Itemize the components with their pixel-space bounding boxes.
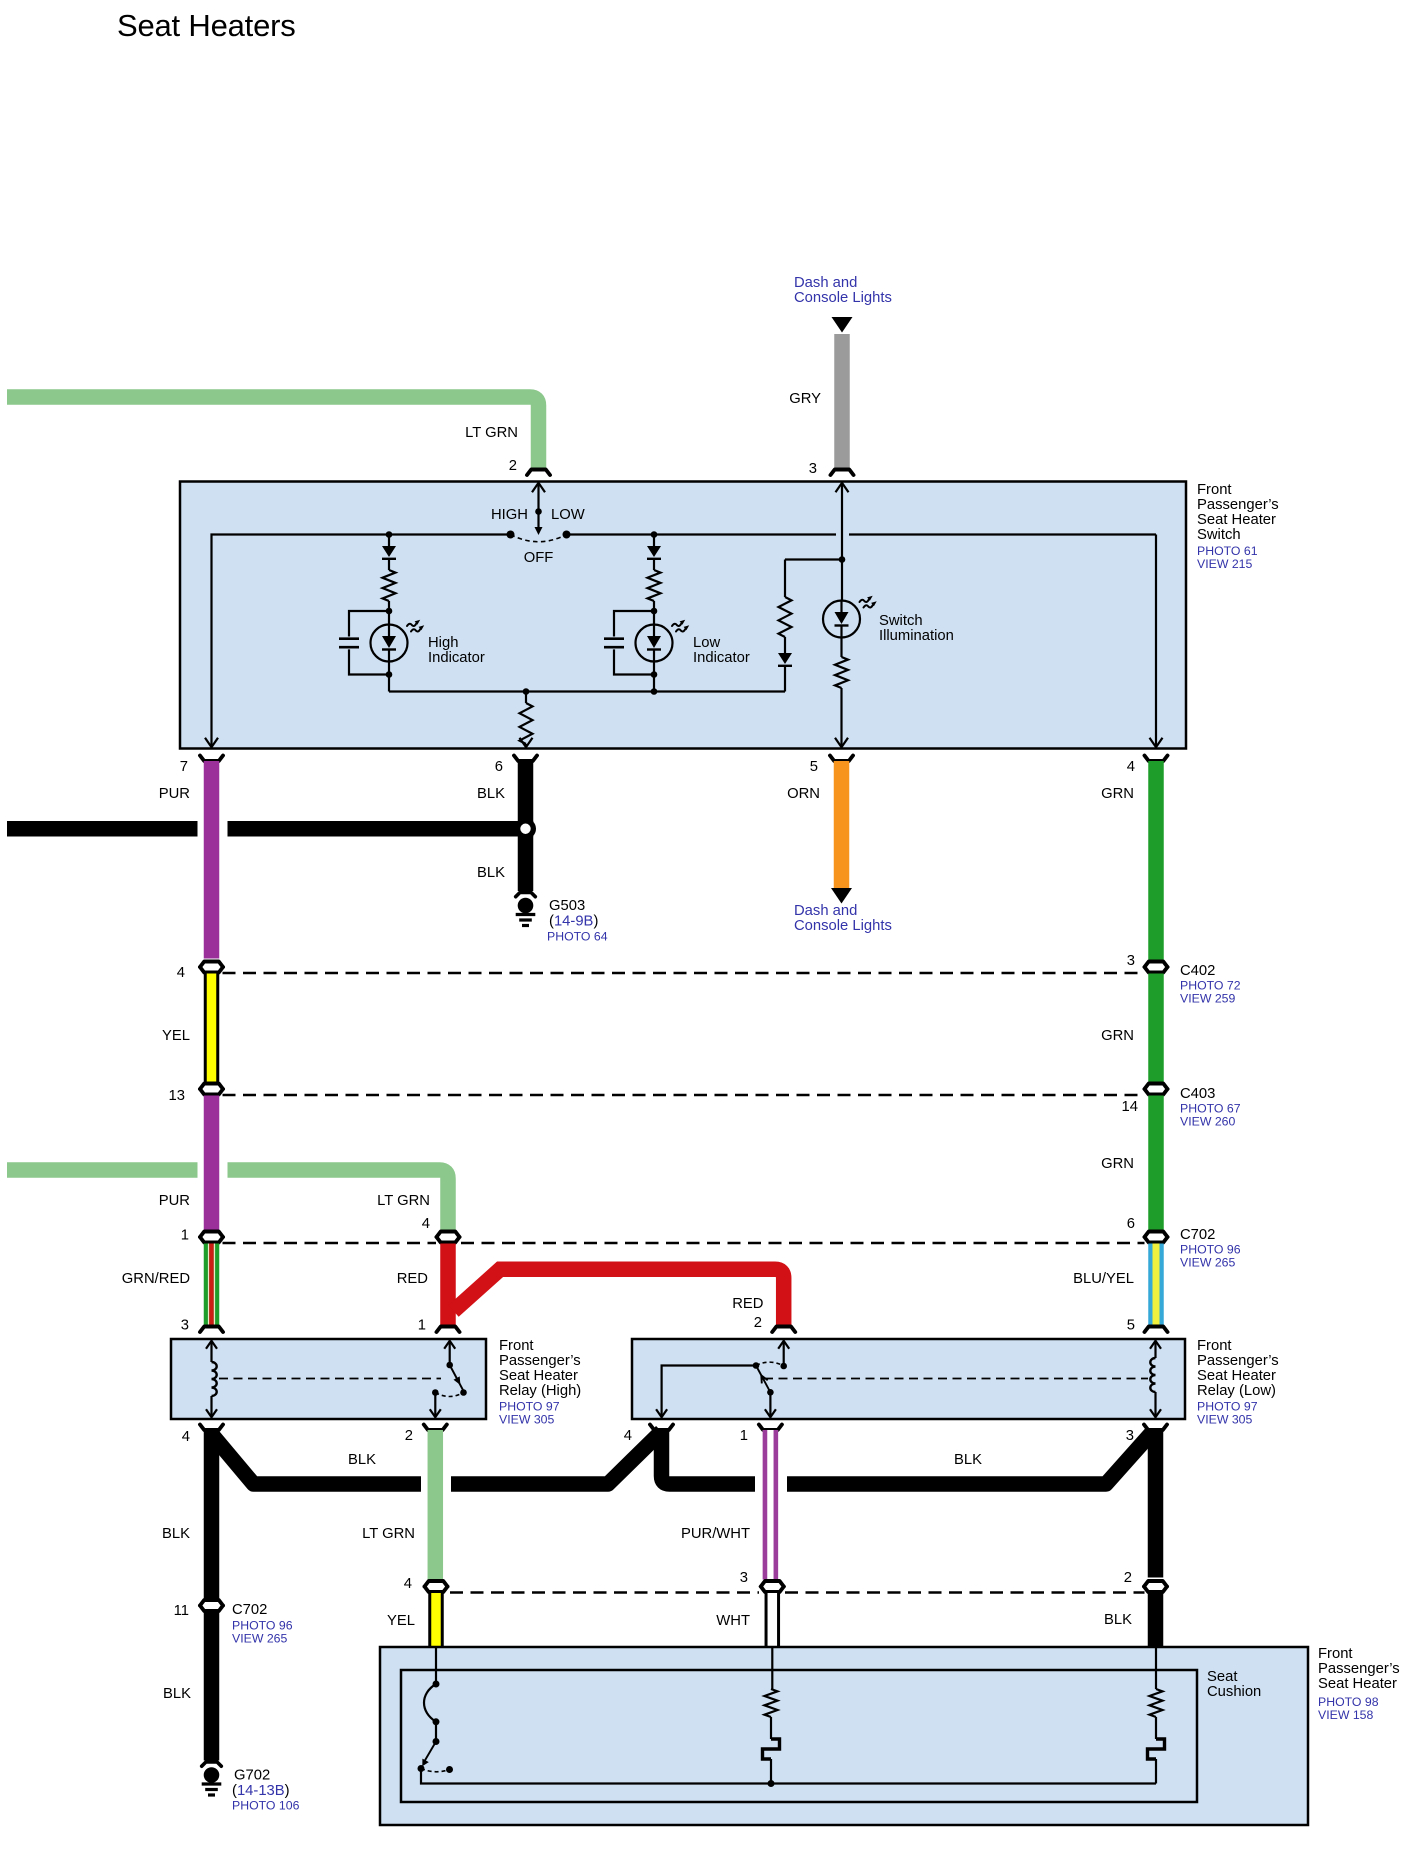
svg-text:2: 2 (509, 458, 517, 474)
pin 3 connector cap (831, 470, 854, 476)
node relay low pin1 contact (767, 1389, 774, 1396)
svg-text:Passenger’s: Passenger’s (1197, 1353, 1279, 1369)
node bus-R6 junction (523, 688, 530, 695)
svg-text:C402: C402 (1180, 963, 1215, 979)
node high top (386, 608, 393, 615)
svg-text:VIEW 158: VIEW 158 (1318, 1708, 1374, 1722)
svg-text:Seat Heater: Seat Heater (1318, 1676, 1397, 1692)
node high branch junction (386, 531, 393, 538)
label GRN lower (1101, 1156, 1134, 1172)
wire low to bus (653, 675, 655, 692)
svg-text:Dash and: Dash and (794, 903, 857, 919)
node thermostat top (433, 1681, 440, 1688)
node switch common (HIGH/LOW dot) (535, 508, 542, 515)
svg-text:PHOTO 96: PHOTO 96 (1180, 1243, 1241, 1257)
wire high to bus (388, 675, 390, 692)
label pin 4 (C702) (422, 1216, 430, 1232)
svg-text:4: 4 (177, 965, 185, 981)
lamp High Indicator (371, 611, 408, 675)
label C702 (1180, 1227, 1241, 1270)
svg-text:PHOTO 61: PHOTO 61 (1197, 544, 1258, 558)
label pin 6 (C702 right) (1127, 1216, 1135, 1232)
svg-text:VIEW 305: VIEW 305 (499, 1413, 555, 1427)
relay high pin 4 cap (200, 1425, 223, 1431)
pin 6 label (495, 759, 503, 775)
diode D-high (382, 535, 396, 571)
svg-text:PHOTO 98: PHOTO 98 (1318, 1695, 1379, 1709)
C402 pin 4 caps (200, 962, 223, 973)
connector C702 dashed line (223, 1242, 1145, 1245)
svg-text:BLK: BLK (348, 1452, 376, 1468)
svg-text:4: 4 (624, 1428, 632, 1444)
svg-text:LT GRN: LT GRN (465, 425, 518, 441)
relay low pin 4 cap (650, 1425, 673, 1431)
pin 4 exit arrow (1150, 738, 1163, 748)
label BLK lower left (163, 1686, 191, 1702)
svg-text:BLK: BLK (477, 865, 505, 881)
relay high label (499, 1338, 581, 1427)
wire LT GRN feed (left to C702 pin 4) (7, 1162, 448, 1229)
label pin 13 (169, 1088, 185, 1104)
node relay low common (753, 1362, 760, 1369)
label pin 1 (C702 left) (181, 1228, 189, 1244)
node bus-low junction (651, 688, 658, 695)
svg-text:High: High (428, 635, 458, 651)
title Seat Heaters (117, 8, 296, 43)
wire BLK ground bus (diagonal from relay high pin 4) (212, 1434, 422, 1484)
connector C702 pin 11 caps (200, 1600, 223, 1611)
svg-text:Front: Front (1318, 1646, 1353, 1662)
C702 pin4 caps (437, 1232, 460, 1243)
wire BLK ground bus right (787, 1433, 1152, 1484)
label pin 2 (relay high bottom) (405, 1428, 413, 1444)
arrow from Dash and Console Lights (832, 317, 853, 333)
wire to pin 4 (right drop) (1155, 535, 1157, 747)
label PUR lower (159, 1193, 190, 1209)
svg-text:5: 5 (1127, 1318, 1135, 1334)
svg-text:Seat: Seat (1207, 1669, 1237, 1685)
node illumination junction (839, 556, 846, 563)
node thermostat mid (433, 1718, 440, 1725)
label Dash and Console Lights (bottom) (794, 903, 892, 934)
svg-text:4: 4 (422, 1216, 430, 1232)
label pin 2 (509, 458, 517, 474)
resistor R-low (648, 570, 661, 601)
seat heater label (1318, 1646, 1400, 1722)
label BLK bus left (348, 1452, 376, 1468)
wire (770, 1717, 772, 1739)
label pin 3 (relay high) (181, 1318, 189, 1334)
pin 3 entry line with arrow (836, 483, 849, 601)
box Seat Cushion (inner) (401, 1670, 1197, 1802)
switch contact dot right (563, 531, 571, 539)
pin 4 connector cap (1145, 756, 1168, 762)
squiggle arrows high (407, 620, 424, 632)
label C403 (1180, 1086, 1241, 1129)
svg-text:BLU/YEL: BLU/YEL (1073, 1271, 1134, 1287)
wire GRN (C403-14 to C702-6) (1148, 1096, 1164, 1230)
wire indicator return bus (389, 690, 785, 692)
svg-text:VIEW 215: VIEW 215 (1197, 557, 1253, 571)
wire illumination resistor branch (785, 560, 842, 598)
label LT GRN (465, 425, 518, 441)
svg-text:Relay (High): Relay (High) (499, 1383, 581, 1399)
svg-text:PUR: PUR (159, 786, 190, 802)
svg-text:GRN: GRN (1101, 786, 1134, 802)
label pin 4 (C402 left) (177, 965, 185, 981)
svg-text:2: 2 (405, 1428, 413, 1444)
resistor R-illum-parallel (779, 597, 792, 637)
LT GRN / YEL caps (425, 1581, 448, 1592)
thermal protector 2 (1148, 1739, 1165, 1759)
svg-text:PHOTO 96: PHOTO 96 (232, 1619, 293, 1633)
node relay low NO (780, 1363, 787, 1370)
label High Indicator (428, 635, 485, 666)
svg-text:5: 5 (810, 759, 818, 775)
svg-text:1: 1 (740, 1428, 748, 1444)
wire (770, 1759, 772, 1784)
relay low pin 2 cap (772, 1327, 795, 1333)
resistor heater element 1 (765, 1689, 778, 1717)
svg-text:BLK: BLK (163, 1686, 191, 1702)
relay low coil (1150, 1341, 1161, 1417)
label WHT (716, 1613, 750, 1629)
svg-text:GRY: GRY (789, 391, 821, 407)
squiggle arrows low (672, 620, 689, 632)
wire BLK trunk (left feed) (7, 821, 533, 837)
relay box Front Passenger's Seat Heater Relay (Low) (632, 1339, 1185, 1419)
svg-text:6: 6 (495, 759, 503, 775)
wire GRY (to switch pin 3) (834, 334, 850, 470)
wire BLK (relay high pin 4 down) (204, 1430, 220, 1598)
switch contact dot left (507, 531, 515, 539)
svg-text:LOW: LOW (551, 507, 585, 523)
node low branch junction (651, 531, 658, 538)
label ORN (787, 786, 820, 802)
label pin 4 (relay high) (182, 1429, 190, 1445)
BLK / BLK caps (1144, 1581, 1167, 1592)
relay low pin 5 cap (1145, 1327, 1168, 1333)
svg-text:Illumination: Illumination (879, 628, 954, 644)
svg-text:Indicator: Indicator (428, 650, 485, 666)
pin 6 exit arrow (520, 738, 533, 748)
svg-text:YEL: YEL (162, 1028, 190, 1044)
capacitor C-high (339, 611, 389, 675)
wire LT GRN (relay high pin 2 down) (428, 1430, 444, 1580)
svg-text:BLK: BLK (954, 1452, 982, 1468)
node thermostat contact left (418, 1765, 425, 1772)
label HIGH (491, 507, 528, 523)
svg-text:C702: C702 (232, 1602, 267, 1618)
svg-text:PHOTO 97: PHOTO 97 (1197, 1400, 1258, 1414)
wire (784, 637, 786, 653)
svg-text:1: 1 (418, 1318, 426, 1334)
wire BLK (pin 11 to G702) (204, 1612, 220, 1761)
svg-text:G503: G503 (549, 898, 585, 914)
svg-text:PHOTO 72: PHOTO 72 (1180, 979, 1241, 993)
svg-text:VIEW 260: VIEW 260 (1180, 1115, 1236, 1129)
label pin 11 (174, 1603, 189, 1619)
relay high pin 2 cap (424, 1425, 447, 1431)
relay low actuation dashed (764, 1378, 1148, 1380)
squiggle arrows illumination (860, 596, 877, 608)
svg-text:GRN/RED: GRN/RED (122, 1271, 190, 1287)
svg-text:Seat Heater: Seat Heater (1197, 512, 1276, 528)
PUR-WHT / WHT caps (761, 1581, 784, 1592)
svg-text:Relay (Low): Relay (Low) (1197, 1383, 1276, 1399)
svg-text:YEL: YEL (387, 1613, 415, 1629)
relay high pin 3 cap (200, 1327, 223, 1333)
relay high moving arm (450, 1365, 464, 1391)
wire BLK (to seat heater) (1148, 1593, 1164, 1647)
svg-text:Seat Heater: Seat Heater (1197, 1368, 1276, 1384)
pin 5 connector cap (830, 756, 853, 762)
label G702 (232, 1768, 300, 1813)
diode D-low (647, 535, 661, 571)
relay high actuation dashed (219, 1378, 441, 1380)
pin 7 label (180, 759, 188, 775)
node element1 junction (768, 1780, 775, 1787)
wire ORN (pin 5 down) (834, 761, 850, 888)
OFF dashed arc (511, 535, 567, 542)
pin 7 exit arrow (205, 738, 218, 748)
svg-text:3: 3 (809, 461, 817, 477)
label pin 4 (seat heater) (404, 1576, 412, 1592)
svg-text:Passenger’s: Passenger’s (1318, 1661, 1400, 1677)
wire cushion bottom bus (421, 1769, 1156, 1784)
lamp Switch Illumination (823, 601, 860, 658)
svg-text:Front: Front (1197, 482, 1232, 498)
relay high contact pin1 line (444, 1341, 455, 1365)
wire internal bus left (pin7 branch) (212, 535, 511, 747)
label Low Indicator (693, 635, 750, 666)
relay high coil (206, 1341, 217, 1417)
pin 4 label (1127, 759, 1135, 775)
wire pin4 into cushion (435, 1647, 437, 1684)
svg-text:VIEW 265: VIEW 265 (232, 1632, 288, 1646)
label YEL 2 (387, 1613, 415, 1629)
svg-text:LT GRN: LT GRN (377, 1193, 430, 1209)
label PUR/WHT (681, 1526, 750, 1542)
label G503 (547, 898, 608, 944)
label Switch Illumination (879, 613, 954, 644)
label PUR (159, 786, 190, 802)
node thermostat contact right (446, 1766, 453, 1773)
relay low label (1197, 1338, 1279, 1427)
svg-text:GRN: GRN (1101, 1028, 1134, 1044)
svg-text:RED: RED (732, 1296, 763, 1312)
C702 pin6 caps (1145, 1232, 1168, 1243)
label GRN/RED (122, 1271, 190, 1287)
ground G702 (202, 1767, 222, 1795)
svg-text:VIEW 259: VIEW 259 (1180, 992, 1236, 1006)
svg-text:C702: C702 (1180, 1227, 1215, 1243)
svg-text:3: 3 (740, 1570, 748, 1586)
label LOW (551, 507, 585, 523)
relay box Front Passenger's Seat Heater Relay (High) (171, 1339, 486, 1419)
svg-text:2: 2 (1124, 1570, 1132, 1586)
relay high pin2 line (430, 1393, 441, 1418)
connector C403 dashed line (223, 1094, 1145, 1097)
label GRY (789, 391, 821, 407)
node low bottom (651, 671, 658, 678)
svg-text:Passenger’s: Passenger’s (499, 1353, 581, 1369)
svg-text:Dash and: Dash and (794, 275, 857, 291)
svg-text:(14-9B): (14-9B) (549, 914, 598, 930)
switch pole arrow (535, 527, 543, 535)
svg-text:Cushion: Cushion (1207, 1684, 1261, 1700)
svg-text:13: 13 (169, 1088, 185, 1104)
wire pin3 into cushion (771, 1647, 773, 1689)
svg-text:WHT: WHT (716, 1613, 750, 1629)
pin 2 entry line with arrow (532, 483, 545, 511)
ground G503 (516, 898, 536, 926)
svg-text:6: 6 (1127, 1216, 1135, 1232)
label pin 5 (relay low) (1127, 1318, 1135, 1334)
relay low pin2 line (778, 1341, 789, 1366)
svg-text:11: 11 (174, 1603, 189, 1619)
label BLK bus right (954, 1452, 982, 1468)
pin 6 connector cap (514, 756, 537, 762)
relay low pin 3 cap (1144, 1425, 1167, 1431)
thermostat flex curve (424, 1684, 436, 1722)
svg-text:4: 4 (404, 1576, 412, 1592)
C402 pin 3 caps (1145, 962, 1168, 973)
svg-text:VIEW 305: VIEW 305 (1197, 1413, 1253, 1427)
wire pin2 into cushion (1155, 1647, 1157, 1689)
svg-text:OFF: OFF (524, 550, 554, 566)
svg-text:3: 3 (181, 1318, 189, 1334)
label RED right (732, 1296, 763, 1312)
svg-text:14: 14 (1122, 1099, 1138, 1115)
switch box Front Passenger's Seat Heater Switch (180, 482, 1186, 749)
svg-text:1: 1 (181, 1228, 189, 1244)
svg-text:Seat Heater: Seat Heater (499, 1368, 578, 1384)
switch pole line (537, 512, 539, 529)
svg-text:LT GRN: LT GRN (362, 1526, 415, 1542)
svg-text:Console Lights: Console Lights (794, 290, 892, 306)
node relay high NO (460, 1389, 467, 1396)
ground G503 cap (516, 893, 536, 897)
wire PUR/WHT (relay low pin 1 down) (763, 1430, 779, 1580)
label pin 3 (seat heater) (740, 1570, 748, 1586)
connector C402 dashed line (223, 972, 1145, 975)
wire BLK (relay low pin 3 down) (1148, 1430, 1164, 1578)
node high bottom (386, 671, 393, 678)
svg-text:Front: Front (1197, 1338, 1232, 1354)
label C702 lower (232, 1602, 293, 1646)
svg-text:PHOTO 106: PHOTO 106 (232, 1799, 300, 1813)
label pin 4 (relay low) (624, 1428, 632, 1444)
wire (435, 1722, 437, 1742)
svg-text:3: 3 (1126, 1428, 1134, 1444)
svg-text:Seat Heaters: Seat Heaters (117, 8, 296, 43)
svg-text:PHOTO 64: PHOTO 64 (547, 930, 608, 944)
node thermostat arm pivot (433, 1738, 440, 1745)
label C402 (1180, 963, 1241, 1006)
svg-text:Switch: Switch (1197, 527, 1241, 543)
svg-text:Front: Front (499, 1338, 534, 1354)
resistor heater element 2 (1150, 1689, 1163, 1717)
label LT GRN 2 (377, 1193, 430, 1209)
svg-text:GRN: GRN (1101, 1156, 1134, 1172)
label OFF (524, 550, 554, 566)
wire BLK ground bus middle (451, 1432, 755, 1485)
label pin 1 (relay high) (418, 1318, 426, 1334)
ground G702 cap (202, 1762, 222, 1766)
C403 pin 14 caps (1145, 1084, 1168, 1095)
svg-text:Passenger’s: Passenger’s (1197, 497, 1279, 513)
wire RED (C702-4 to relays) (448, 1244, 784, 1326)
wire (1155, 1717, 1157, 1739)
svg-text:PUR/WHT: PUR/WHT (681, 1526, 750, 1542)
svg-text:BLK: BLK (477, 786, 505, 802)
svg-text:BLK: BLK (1104, 1612, 1132, 1628)
thermostat moving arm (422, 1742, 436, 1767)
wire WHT (to seat heater) (765, 1593, 781, 1647)
svg-text:3: 3 (1127, 953, 1135, 969)
relay low pin1 line (765, 1392, 776, 1417)
node relay high common (446, 1362, 453, 1369)
capacitor C-low (604, 611, 654, 675)
wire PUR (pin 7 down) (204, 761, 220, 959)
wire BLU/YEL (C702-6 to relay low pin 5) (1148, 1244, 1164, 1326)
svg-text:4: 4 (182, 1429, 190, 1445)
svg-text:Low: Low (693, 635, 720, 651)
relay low contact dashed arc (756, 1362, 784, 1366)
label BLU/YEL (1073, 1271, 1134, 1287)
relay low moving arm (756, 1366, 770, 1393)
pin 2 connector cap (527, 470, 550, 476)
wire GRN (pin 4 down) (1148, 761, 1164, 960)
label BLK left column (162, 1526, 190, 1542)
svg-text:PHOTO 97: PHOTO 97 (499, 1400, 560, 1414)
label Dash and Console Lights (top) (794, 275, 892, 306)
wire internal bus right (567, 533, 1157, 535)
wire (388, 601, 390, 611)
pin 5 exit arrow (835, 738, 848, 748)
pin 5 label (810, 759, 818, 775)
resistor R-common (to pin 6) (520, 692, 533, 747)
wire YEL (C402-4 to C403-13) (204, 974, 220, 1082)
svg-text:2: 2 (754, 1315, 762, 1331)
junction BLK trunk / pin6 wire (515, 818, 536, 839)
wire GRN/RED (C702-1 to relay high pin 3) (204, 1244, 220, 1326)
resistor R-high (383, 570, 396, 601)
pin 7 connector cap (200, 756, 223, 762)
svg-text:HIGH: HIGH (491, 507, 528, 523)
svg-text:4: 4 (1127, 759, 1135, 775)
svg-text:Indicator: Indicator (693, 650, 750, 666)
label pin 3 (809, 461, 817, 477)
svg-text:ORN: ORN (787, 786, 820, 802)
relay high pin 1 cap (437, 1327, 460, 1333)
box Front Passenger's Seat Heater (380, 1647, 1308, 1825)
label LT GRN 3 (362, 1526, 415, 1542)
svg-text:VIEW 265: VIEW 265 (1180, 1256, 1236, 1270)
svg-text:PUR: PUR (159, 1193, 190, 1209)
switch box label (1197, 482, 1279, 571)
node low top (651, 608, 658, 615)
label BLK lower (477, 865, 505, 881)
label BLK upper (477, 786, 505, 802)
wire (653, 601, 655, 611)
label RED left (397, 1271, 428, 1287)
wire LT GRN feed (left to switch pin 2) (7, 397, 539, 470)
svg-text:RED: RED (397, 1271, 428, 1287)
label GRN (1101, 786, 1134, 802)
thermostat dashed arc (421, 1769, 450, 1772)
